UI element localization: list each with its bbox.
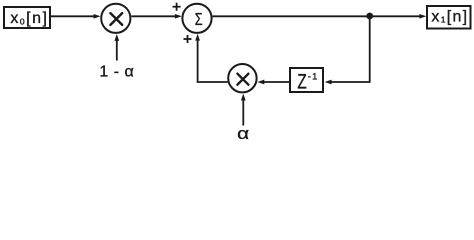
multiply sign M2: [237, 74, 248, 85]
multiply sign M1: [110, 13, 122, 25]
wire input to multiplier M1: [51, 15, 95, 17]
junction node dot: [366, 13, 373, 20]
output box X1: [427, 6, 471, 29]
plus sign lower input: [184, 35, 192, 43]
summer U1 circle: [182, 4, 211, 33]
svg-text:-1: -1: [308, 71, 319, 82]
svg-text:Σ: Σ: [195, 9, 203, 29]
wire M1 to summer: [131, 15, 176, 17]
svg-text:1 - α: 1 - α: [99, 64, 134, 81]
arrowhead into output box: [419, 14, 426, 19]
wire delay to multiplier M2: [264, 81, 289, 83]
wire 1-alpha into M1: [116, 40, 118, 61]
svg-text:x1[n]: x1[n]: [431, 8, 468, 25]
wire summer to output box: [213, 15, 421, 17]
wire alpha into M2: [242, 100, 244, 126]
delay box Z-1: [290, 68, 323, 92]
wire node down and to delay: [331, 16, 370, 82]
svg-text:Z: Z: [297, 70, 307, 93]
multiplier M1 circle: [101, 4, 130, 33]
arrowhead into M2: [257, 80, 264, 85]
arrowhead alpha into M2: [241, 94, 246, 101]
arrowhead feedback into summer: [195, 34, 200, 41]
plus sign upper input: [173, 3, 181, 11]
wire M2 to summer feedback: [198, 40, 228, 83]
multiplier M2 circle: [228, 64, 256, 92]
arrowhead 1-alpha into M1: [114, 34, 119, 41]
arrowhead into M1: [94, 14, 101, 19]
arrowhead into delay: [325, 80, 332, 85]
svg-text:x0[n]: x0[n]: [10, 10, 48, 27]
input box X0: [4, 7, 50, 28]
svg-text:α: α: [237, 124, 249, 143]
arrowhead into summer: [175, 14, 182, 19]
